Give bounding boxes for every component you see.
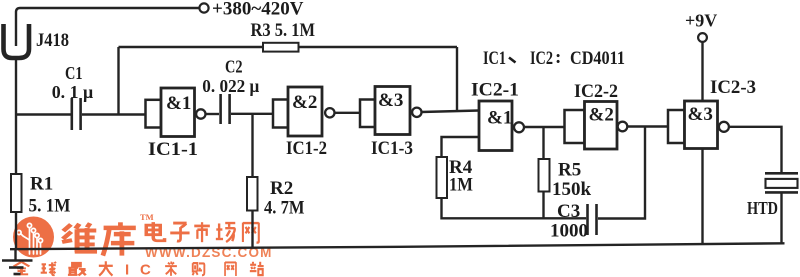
- svg-text:C2: C2: [225, 57, 243, 77]
- buzzer HTD piezo element top plate: [765, 172, 798, 175]
- svg-text:0. 022 μ: 0. 022 μ: [202, 76, 259, 96]
- wire IC1-2 out to IC1-3 in: [334, 112, 360, 114]
- buzzer HTD piezo element bottom plate: [765, 191, 798, 194]
- svg-text:5. 1M: 5. 1M: [29, 196, 71, 217]
- NAND gate IC2-1 body: [479, 101, 512, 151]
- capacitor C2: [219, 94, 222, 124]
- svg-text::: :: [555, 47, 561, 68]
- wire J418 cathode down to main node: [15, 58, 17, 115]
- watermark url: [145, 245, 273, 260]
- NAND gate IC1-3 body: [360, 100, 375, 128]
- svg-text:&3: &3: [688, 104, 713, 125]
- svg-text:R3 5. 1M: R3 5. 1M: [251, 20, 316, 41]
- svg-text:R2: R2: [270, 178, 293, 199]
- svg-text:CD4011: CD4011: [570, 48, 625, 69]
- wire main node to C1: [16, 113, 71, 115]
- svg-text:TM: TM: [140, 212, 154, 222]
- wire IC2-3 out to HTD: [729, 127, 782, 172]
- buzzer HTD piezo disc body: [766, 179, 798, 188]
- ground rail: [10, 243, 785, 249]
- svg-text:R1: R1: [30, 174, 53, 195]
- svg-text:C: C: [140, 262, 151, 277]
- svg-text:IC1-3: IC1-3: [371, 138, 413, 159]
- wire HTD to ground rail: [780, 192, 782, 243]
- wire IC1-3 out to IC2-1 upper input: [421, 111, 479, 113]
- wire R2 branch down: [251, 114, 253, 177]
- wire C2 to gate IC1-2, node R2 top: [231, 113, 273, 115]
- svg-text:IC2-1: IC2-1: [471, 80, 519, 101]
- wire R3 right vertical down to IC2-1 input line: [456, 47, 458, 111]
- svg-text:+380~420V: +380~420V: [212, 0, 304, 20]
- watermark char wang: [243, 223, 259, 243]
- NAND gate IC2-3 body: [668, 110, 685, 143]
- svg-text:C1: C1: [65, 63, 83, 83]
- wire IC2-3 ground pin to rail: [701, 149, 703, 245]
- resistor R5 body: [539, 159, 550, 192]
- svg-text:&2: &2: [292, 92, 317, 113]
- svg-text:&3: &3: [378, 90, 403, 111]
- svg-text:&1: &1: [487, 108, 512, 129]
- wire R3 left vertical: [117, 47, 119, 115]
- svg-text:IC1: IC1: [483, 48, 506, 69]
- resistor R2 body: [247, 177, 258, 211]
- resistor R1 body: [11, 174, 22, 212]
- svg-text:IC2-3: IC2-3: [710, 77, 756, 98]
- svg-text:+9V: +9V: [685, 11, 717, 31]
- svg-text:1M: 1M: [449, 175, 473, 196]
- wire C3 right plate up to IC2-2 output: [598, 127, 645, 219]
- wire C1 to gate IC1-1 input, node B under R3 left leg: [82, 113, 146, 115]
- svg-text:HTD: HTD: [747, 198, 778, 218]
- svg-text:IC1-2: IC1-2: [286, 138, 327, 159]
- wire R2 bottom to ground rail: [251, 211, 253, 249]
- NAND gate IC2-2 body: [565, 110, 585, 143]
- watermark char shi: [194, 222, 210, 242]
- watermark bottom row: quan qiu zui da I C cai gou wang zhan: [14, 261, 113, 275]
- svg-text:IC2-2: IC2-2: [574, 81, 618, 102]
- capacitor C1: [71, 98, 74, 130]
- wire IC2-2 out to IC2-3 in: [627, 125, 668, 127]
- svg-text:&2: &2: [589, 105, 614, 126]
- svg-text:I: I: [125, 262, 129, 277]
- wire R1 bottom to ground rail: [15, 212, 17, 249]
- svg-text:4. 7M: 4. 7M: [264, 198, 305, 219]
- wire +9V to IC2-3 power pin: [701, 42, 703, 101]
- svg-text:&1: &1: [166, 93, 191, 114]
- wire IC2-1 out to IC2-2 in, node R5 top: [524, 126, 565, 128]
- svg-text:J418: J418: [36, 30, 69, 51]
- wire IC1-1 out to C2: [205, 113, 219, 115]
- resistor R3 body: [263, 43, 299, 52]
- wire IC2-1 lower input from R4: [442, 137, 480, 157]
- watermark char chang: [216, 223, 235, 242]
- watermark char zi: [170, 223, 189, 241]
- +9V terminal circle: [698, 33, 707, 42]
- svg-text:1000: 1000: [550, 221, 588, 242]
- wire left vertical to R1: [15, 115, 17, 175]
- ground symbol: [14, 249, 16, 260]
- wire R5 bottom to C3 line: [542, 192, 544, 219]
- NAND gate IC1-1 body: [146, 100, 162, 128]
- NAND gate IC1-2 body: [273, 100, 288, 128]
- wire R3 feedback rail: [119, 46, 458, 48]
- capacitor C3: [586, 204, 589, 235]
- supply terminal circle: [199, 3, 208, 12]
- svg-text:R5: R5: [558, 160, 581, 181]
- svg-text:IC1-1: IC1-1: [148, 139, 198, 160]
- watermark big char wei: [62, 223, 97, 252]
- watermark char dian: [146, 222, 164, 241]
- svg-text:IC2: IC2: [530, 48, 553, 69]
- resistor R4 body: [437, 157, 448, 198]
- svg-text:0. 1 μ: 0. 1 μ: [52, 82, 93, 102]
- svg-text:150k: 150k: [552, 179, 592, 200]
- probe tube J418 (U electrode): [4, 24, 30, 58]
- watermark big char ku: [103, 222, 136, 255]
- wire R5 branch: [542, 127, 544, 159]
- wire R4 bottom to C3 left line: [442, 198, 587, 218]
- watermark logo circle dzsc: [13, 217, 54, 258]
- wire top rail from J418 anode to supply terminal: [16, 8, 199, 46]
- svg-text:C3: C3: [557, 201, 580, 222]
